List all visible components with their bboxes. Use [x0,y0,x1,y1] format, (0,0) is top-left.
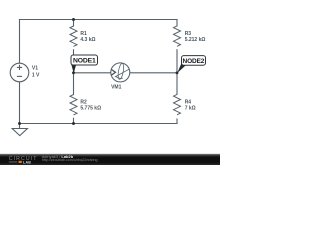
resistor R1 [70,26,96,46]
svg-text:7 kΩ: 7 kΩ [185,105,196,111]
wire right branch: node2 to R4 [176,73,178,95]
svg-text:1 V: 1 V [32,73,40,79]
wire left rail upper [19,20,21,64]
voltmeter VM1 [111,63,130,91]
wire middle branch: R1 to node1 [73,50,75,73]
watermark bar [0,154,220,165]
wire top rail [20,19,178,21]
wire middle horizontal left (node1 to VM1) [74,72,111,74]
svg-text:LAB: LAB [23,160,31,164]
node bottom middle [72,122,75,125]
voltage source V1 [10,63,40,82]
svg-text:http://circuitlab.com/c/xbq22n: http://circuitlab.com/c/xbq22nrabng [42,158,98,162]
svg-text:4.3 kΩ: 4.3 kΩ [80,37,95,43]
resistor R4 [174,94,196,114]
svg-text:5.212 kΩ: 5.212 kΩ [185,37,206,43]
svg-text:NODE2: NODE2 [183,58,205,65]
node flag NODE1 [71,55,98,73]
svg-text:NODE1: NODE1 [73,58,96,65]
wire middle horizontal right (VM1 to node2) [130,72,177,74]
node A (top middle) [72,18,75,21]
node junction dots [18,18,178,125]
wire bottom rail [20,123,178,125]
ground [12,124,27,136]
wire middle branch: R2 to bottom [73,118,75,123]
resistor R2 [70,95,101,115]
wire middle branch: node1 to R2 [73,73,75,95]
node NODE2 junction [176,71,179,74]
wire left rail lower [19,82,21,124]
svg-text:V1: V1 [32,66,38,72]
wire right branch: top corner to R3 [176,20,178,26]
node ground junction [18,122,21,125]
wire right branch: R3 to node2 [176,50,178,73]
CircuitLab logo row LAB [9,161,17,164]
node NODE1 junction [72,71,75,74]
node flag NODE2 [177,56,205,73]
resistor R3 [174,26,206,46]
svg-text:VM1: VM1 [111,85,122,91]
wire right branch: R4 to bottom corner [176,119,178,124]
wire middle branch: top to R1 [73,20,75,27]
svg-text:5.775 kΩ: 5.775 kΩ [80,105,101,111]
